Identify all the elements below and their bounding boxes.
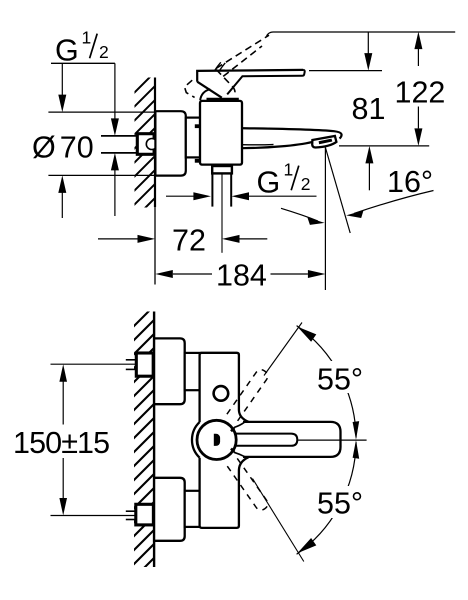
svg-text:G: G: [257, 166, 281, 200]
svg-text:2: 2: [99, 42, 109, 62]
svg-text:1: 1: [284, 160, 294, 180]
svg-text:Ø: Ø: [32, 131, 56, 165]
svg-text:150±15: 150±15: [13, 426, 109, 460]
svg-text:55°: 55°: [317, 487, 363, 521]
svg-text:122: 122: [395, 76, 446, 110]
svg-text:81: 81: [352, 92, 386, 126]
svg-text:55°: 55°: [317, 363, 363, 397]
svg-text:72: 72: [172, 223, 206, 257]
svg-text:70: 70: [60, 131, 94, 165]
svg-text:16°: 16°: [387, 165, 433, 199]
svg-text:184: 184: [216, 259, 267, 293]
svg-text:1: 1: [82, 28, 92, 48]
svg-text:G: G: [55, 34, 79, 68]
svg-text:2: 2: [301, 174, 311, 194]
